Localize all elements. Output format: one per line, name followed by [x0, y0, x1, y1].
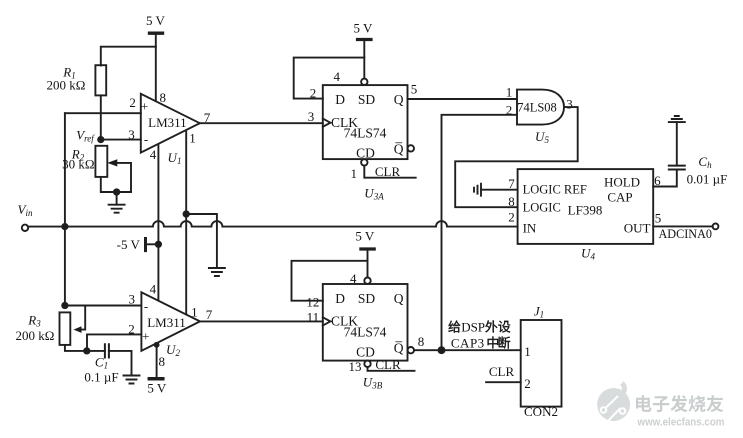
- node R3 bottom junction: [84, 348, 89, 353]
- svg-text:200 kΩ: 200 kΩ: [47, 78, 86, 93]
- svg-text:5: 5: [411, 82, 418, 97]
- ground below C1: [124, 376, 140, 384]
- ground above Ch (inverted): [669, 116, 685, 122]
- node main-bus / left branch junction: [62, 224, 67, 229]
- wire U2 pin3 input: [65, 305, 141, 307]
- svg-text:5: 5: [655, 211, 662, 226]
- svg-text:LM311: LM311: [148, 115, 187, 130]
- svg-text:4: 4: [150, 282, 157, 297]
- ground mid: [209, 268, 225, 276]
- wire R3 bottom: [65, 345, 105, 351]
- op-amp U1 LM311: [128, 90, 211, 166]
- svg-text:CAP3: CAP3: [451, 336, 485, 351]
- wire U3A Q to U5 pin1: [408, 98, 518, 100]
- svg-text:CLR: CLR: [489, 364, 515, 379]
- svg-text:74LS74: 74LS74: [344, 324, 387, 339]
- svg-text:LOGIC REF: LOGIC REF: [523, 183, 587, 197]
- svg-text:200 kΩ: 200 kΩ: [16, 328, 55, 343]
- wire 5V to R1: [101, 47, 156, 66]
- svg-text:8: 8: [160, 90, 167, 105]
- svg-text:8: 8: [159, 354, 166, 369]
- svg-text:LM311: LM311: [147, 315, 186, 330]
- node ground tap on pin1 line: [184, 211, 189, 216]
- svg-text:HOLD: HOLD: [604, 175, 640, 190]
- svg-text:30 kΩ: 30 kΩ: [62, 157, 94, 172]
- ground below R2: [109, 192, 125, 213]
- svg-text:11: 11: [307, 310, 320, 325]
- svg-text:4: 4: [150, 147, 157, 162]
- watermark text elecfans: [636, 395, 725, 428]
- svg-text:1: 1: [189, 131, 196, 146]
- svg-text:OUT: OUT: [624, 221, 651, 236]
- node U2 pin3 / branch junction: [62, 303, 67, 308]
- power -5V: [117, 237, 161, 252]
- node Qbar junction: [439, 347, 445, 353]
- potentiometer R3 200k: [16, 306, 86, 345]
- svg-text:CD: CD: [356, 146, 375, 161]
- power 5V above U3B: [355, 229, 375, 278]
- svg-text:1: 1: [506, 85, 513, 100]
- input terminal Vin: [18, 202, 33, 231]
- svg-text:D: D: [335, 92, 345, 107]
- wire U3A D tied high loop: [294, 58, 365, 99]
- wire U3B Qbar to J1 and U5: [414, 349, 521, 351]
- svg-text:www.elecfans.com: www.elecfans.com: [637, 417, 725, 429]
- wire U1 pin2 input: [65, 112, 141, 114]
- wire U2 pin7 to U3B CLK: [200, 320, 323, 322]
- power 5V above U3A: [354, 20, 374, 78]
- svg-text:5 V: 5 V: [355, 229, 375, 244]
- wire J1 pin2 CLR: [486, 381, 521, 383]
- svg-text:5 V: 5 V: [147, 381, 167, 396]
- svg-text:3: 3: [566, 97, 573, 112]
- op-amp U2 LM311: [128, 282, 213, 370]
- wire R2 bottom: [101, 177, 131, 192]
- wire pin1 line to ground: [186, 214, 217, 268]
- wire Vref to U1 pin3: [101, 139, 141, 141]
- svg-text:13: 13: [349, 359, 362, 374]
- connector J1 CON2: [521, 304, 562, 420]
- svg-text:CON2: CON2: [524, 404, 558, 419]
- watermark logo elecfans: [597, 383, 630, 421]
- wire U5 output to LF398 LOGIC pin8: [455, 107, 578, 207]
- flip-flop U3A 74LS74: [308, 69, 418, 202]
- svg-text:4: 4: [350, 271, 357, 286]
- power 5V below U2: [147, 379, 167, 396]
- wire R1 bottom to Vref node: [100, 95, 102, 139]
- svg-text:5 V: 5 V: [354, 20, 374, 35]
- svg-text:SD: SD: [358, 291, 376, 306]
- svg-text:8: 8: [418, 334, 425, 349]
- svg-text:-: -: [144, 299, 148, 314]
- svg-text:Q̅: Q̅: [394, 142, 404, 157]
- svg-text:3: 3: [128, 127, 135, 142]
- svg-text:2: 2: [508, 210, 515, 225]
- wire LF398 pin6 to hold cap: [653, 170, 677, 187]
- resistor R1 200k: [47, 65, 107, 96]
- svg-text:CAP: CAP: [607, 190, 632, 205]
- svg-text:0.1 µF: 0.1 µF: [84, 370, 118, 385]
- svg-text:3: 3: [308, 109, 315, 124]
- svg-text:CLR: CLR: [375, 357, 401, 372]
- wire U3A CLR: [364, 166, 415, 178]
- svg-text:CD: CD: [356, 345, 375, 360]
- svg-text:D: D: [335, 291, 345, 306]
- ground at LF398 pin7: [474, 184, 518, 196]
- svg-text:1: 1: [351, 166, 358, 181]
- svg-text:4: 4: [334, 69, 341, 84]
- svg-text:DSP: DSP: [461, 320, 485, 335]
- wire U1 pin7 to U3A CLK: [200, 122, 323, 124]
- potentiometer R2 30k: [62, 146, 131, 192]
- svg-text:8: 8: [508, 194, 515, 209]
- svg-text:1: 1: [191, 305, 198, 320]
- svg-text:3: 3: [129, 292, 136, 307]
- svg-text:Q: Q: [394, 92, 404, 107]
- svg-text:2: 2: [524, 376, 531, 391]
- node Vref: [76, 128, 103, 144]
- svg-text:SD: SD: [358, 92, 376, 107]
- wire U1 pin1 / U2 pin1 vertical: [185, 132, 187, 315]
- svg-text:1: 1: [524, 344, 531, 359]
- wire LF398 OUT to ADCINA0: [653, 225, 713, 227]
- svg-text:Q: Q: [394, 291, 404, 306]
- wire U3B CLR: [368, 367, 415, 371]
- svg-text:2: 2: [506, 103, 513, 118]
- svg-text:LOGIC: LOGIC: [523, 201, 561, 215]
- svg-text:Q̅: Q̅: [394, 340, 404, 355]
- svg-text:IN: IN: [523, 221, 537, 236]
- svg-text:CLR: CLR: [375, 164, 401, 179]
- power 5V top-left: [146, 13, 166, 100]
- wire U2 pin8: [155, 343, 159, 377]
- svg-text:+: +: [142, 329, 149, 344]
- node R2 bottom junction: [114, 189, 119, 194]
- wire Ch to top ground: [676, 122, 678, 166]
- wire Qbar junction up to U5 pin2: [442, 115, 518, 350]
- capacitor Ch 0.01uF: [669, 154, 728, 187]
- capacitor C1 0.1uF: [84, 344, 118, 384]
- label DSP interrupt note: [449, 320, 511, 351]
- wire C1 to ground: [109, 351, 132, 376]
- svg-text:ADCINA0: ADCINA0: [659, 227, 713, 241]
- wire U3B D tied high loop: [292, 261, 368, 301]
- svg-text:0.01 µF: 0.01 µF: [687, 172, 728, 187]
- and-gate U5 74LS08: [506, 85, 573, 146]
- sample-hold U4 LF398: [508, 169, 661, 261]
- flip-flop U3B 74LS74: [306, 271, 424, 391]
- svg-text:5 V: 5 V: [146, 13, 166, 28]
- wire left vertical branch: [64, 113, 66, 305]
- svg-text:+: +: [141, 99, 148, 114]
- svg-text:2: 2: [129, 95, 136, 110]
- svg-text:12: 12: [306, 295, 319, 310]
- svg-text:74LS74: 74LS74: [344, 126, 387, 141]
- svg-text:-5 V: -5 V: [117, 237, 141, 252]
- output terminal ADCINA0: [659, 224, 719, 242]
- svg-text:-: -: [144, 132, 148, 147]
- svg-text:74LS08: 74LS08: [517, 101, 557, 115]
- svg-text:7: 7: [206, 307, 213, 322]
- wire R3 node to U2 pin2: [87, 334, 141, 351]
- svg-text:LF398: LF398: [568, 203, 603, 218]
- wire main input bus with hops: [28, 221, 517, 227]
- wire U1 pin4 / U2 pin4 vertical: [157, 145, 159, 299]
